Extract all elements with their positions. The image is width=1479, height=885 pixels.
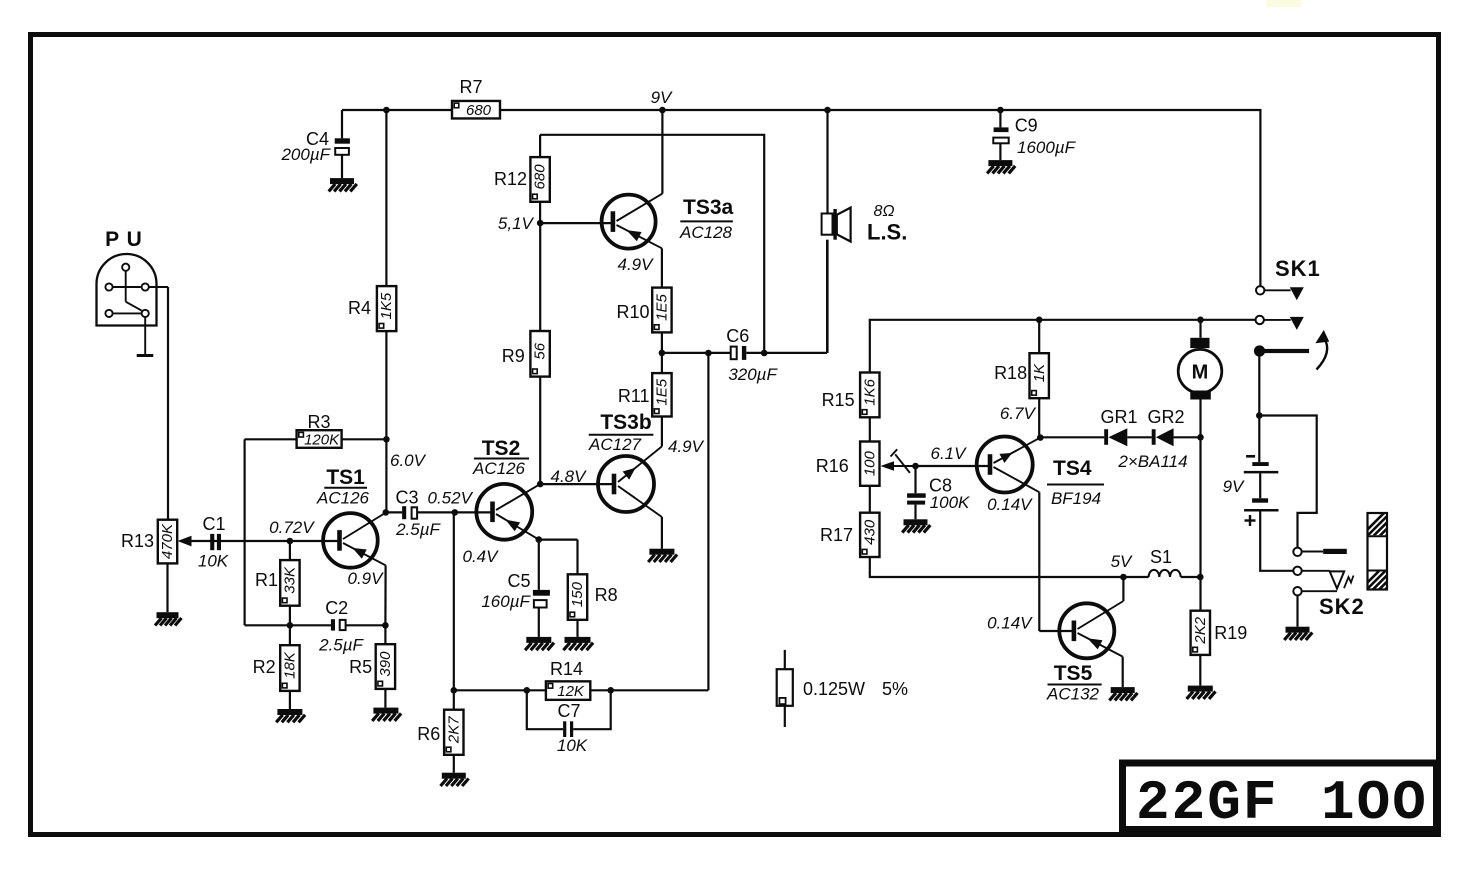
svg-text:56: 56 <box>532 342 549 359</box>
svg-text:R12: R12 <box>494 169 527 189</box>
svg-text:AC126: AC126 <box>316 489 370 508</box>
svg-text:R2: R2 <box>253 657 276 677</box>
svg-text:R5: R5 <box>349 657 372 677</box>
svg-text:R7: R7 <box>459 77 482 97</box>
svg-text:C5: C5 <box>507 571 530 591</box>
svg-text:C6: C6 <box>726 326 749 346</box>
svg-text:GR1: GR1 <box>1100 407 1137 427</box>
svg-text:2.5µF: 2.5µF <box>318 636 364 655</box>
svg-text:2K7: 2K7 <box>445 716 462 744</box>
svg-text:C2: C2 <box>325 598 348 618</box>
svg-text:10K: 10K <box>557 736 588 755</box>
svg-text:R11: R11 <box>618 386 650 406</box>
svg-text:1K6: 1K6 <box>861 378 878 405</box>
svg-text:0.125W: 0.125W <box>803 679 865 699</box>
svg-text:2K2: 2K2 <box>1192 616 1209 644</box>
svg-text:R9: R9 <box>502 346 525 366</box>
svg-text:18K: 18K <box>282 651 299 679</box>
svg-text:5%: 5% <box>882 679 908 699</box>
svg-text:1K5: 1K5 <box>378 292 395 319</box>
svg-text:TS3a: TS3a <box>683 196 734 219</box>
svg-text:470K: 470K <box>159 523 176 559</box>
svg-text:R17: R17 <box>820 525 853 545</box>
svg-text:TS2: TS2 <box>482 437 521 460</box>
svg-text:0.52V: 0.52V <box>428 489 474 508</box>
svg-text:680: 680 <box>532 164 549 190</box>
svg-text:1OO: 1OO <box>1321 771 1428 835</box>
svg-text:33K: 33K <box>282 566 299 594</box>
svg-text:R18: R18 <box>994 363 1027 383</box>
svg-text:AC128: AC128 <box>679 223 733 242</box>
svg-text:5,1V: 5,1V <box>498 214 535 233</box>
svg-text:1E5: 1E5 <box>654 378 671 405</box>
svg-text:0.14V: 0.14V <box>987 495 1033 514</box>
svg-text:100: 100 <box>861 450 878 476</box>
svg-text:120K: 120K <box>304 431 340 448</box>
svg-text:C9: C9 <box>1015 116 1038 136</box>
svg-text:SK2: SK2 <box>1319 594 1365 619</box>
svg-text:9V: 9V <box>1223 477 1245 496</box>
svg-text:GR2: GR2 <box>1147 407 1184 427</box>
svg-text:R13: R13 <box>121 531 154 551</box>
svg-text:1K: 1K <box>1031 363 1048 382</box>
svg-text:TS5: TS5 <box>1054 662 1093 685</box>
svg-text:320µF: 320µF <box>728 365 778 384</box>
svg-text:R3: R3 <box>307 412 330 432</box>
svg-text:C1: C1 <box>202 514 225 534</box>
svg-text:R16: R16 <box>816 456 849 476</box>
svg-text:10K: 10K <box>198 552 229 571</box>
svg-text:6.1V: 6.1V <box>931 444 968 463</box>
svg-text:M: M <box>1192 362 1209 384</box>
svg-text:C7: C7 <box>557 701 580 721</box>
svg-text:2.5µF: 2.5µF <box>395 520 441 539</box>
svg-text:R10: R10 <box>616 302 649 322</box>
svg-text:150: 150 <box>569 581 586 607</box>
svg-text:R14: R14 <box>550 659 583 679</box>
svg-text:R8: R8 <box>595 585 618 605</box>
svg-text:0.72V: 0.72V <box>269 518 315 537</box>
svg-text:680: 680 <box>466 102 492 119</box>
svg-text:TS1: TS1 <box>326 466 365 489</box>
svg-text:9V: 9V <box>651 88 673 107</box>
svg-text:0.4V: 0.4V <box>463 547 500 566</box>
svg-text:R15: R15 <box>822 390 855 410</box>
svg-text:AC127: AC127 <box>588 435 642 454</box>
svg-text:R4: R4 <box>348 298 371 318</box>
svg-text:AC126: AC126 <box>472 459 526 478</box>
svg-text:200µF: 200µF <box>280 145 331 164</box>
svg-text:390: 390 <box>377 651 394 677</box>
svg-text:0.9V: 0.9V <box>348 569 385 588</box>
svg-text:6.7V: 6.7V <box>1000 404 1037 423</box>
svg-text:5V: 5V <box>1111 552 1133 571</box>
svg-text:SK1: SK1 <box>1275 256 1321 281</box>
svg-text:R1: R1 <box>255 570 278 590</box>
svg-text:C3: C3 <box>395 488 418 508</box>
svg-text:AC132: AC132 <box>1046 685 1100 704</box>
svg-text:0.14V: 0.14V <box>987 614 1033 633</box>
svg-text:1600µF: 1600µF <box>1017 138 1077 157</box>
svg-text:1E5: 1E5 <box>654 294 671 321</box>
svg-text:P U: P U <box>105 228 143 251</box>
svg-text:L.S.: L.S. <box>867 220 907 245</box>
svg-text:4.9V: 4.9V <box>618 255 655 274</box>
svg-text:4.9V: 4.9V <box>668 437 705 456</box>
svg-text:S1: S1 <box>1150 547 1172 567</box>
svg-text:BF194: BF194 <box>1051 489 1101 508</box>
svg-text:100K: 100K <box>930 493 970 512</box>
svg-text:6.0V: 6.0V <box>390 451 427 470</box>
svg-text:R6: R6 <box>417 724 440 744</box>
svg-text:430: 430 <box>861 519 878 545</box>
svg-text:8Ω: 8Ω <box>873 203 894 220</box>
svg-text:22GF: 22GF <box>1136 771 1278 835</box>
svg-text:R19: R19 <box>1214 623 1247 643</box>
svg-text:12K: 12K <box>557 683 585 700</box>
svg-text:4.8V: 4.8V <box>551 467 588 486</box>
svg-text:TS4: TS4 <box>1053 457 1092 480</box>
svg-text:2×BA114: 2×BA114 <box>1117 452 1187 471</box>
svg-text:160µF: 160µF <box>481 592 531 611</box>
svg-text:TS3b: TS3b <box>600 411 651 434</box>
